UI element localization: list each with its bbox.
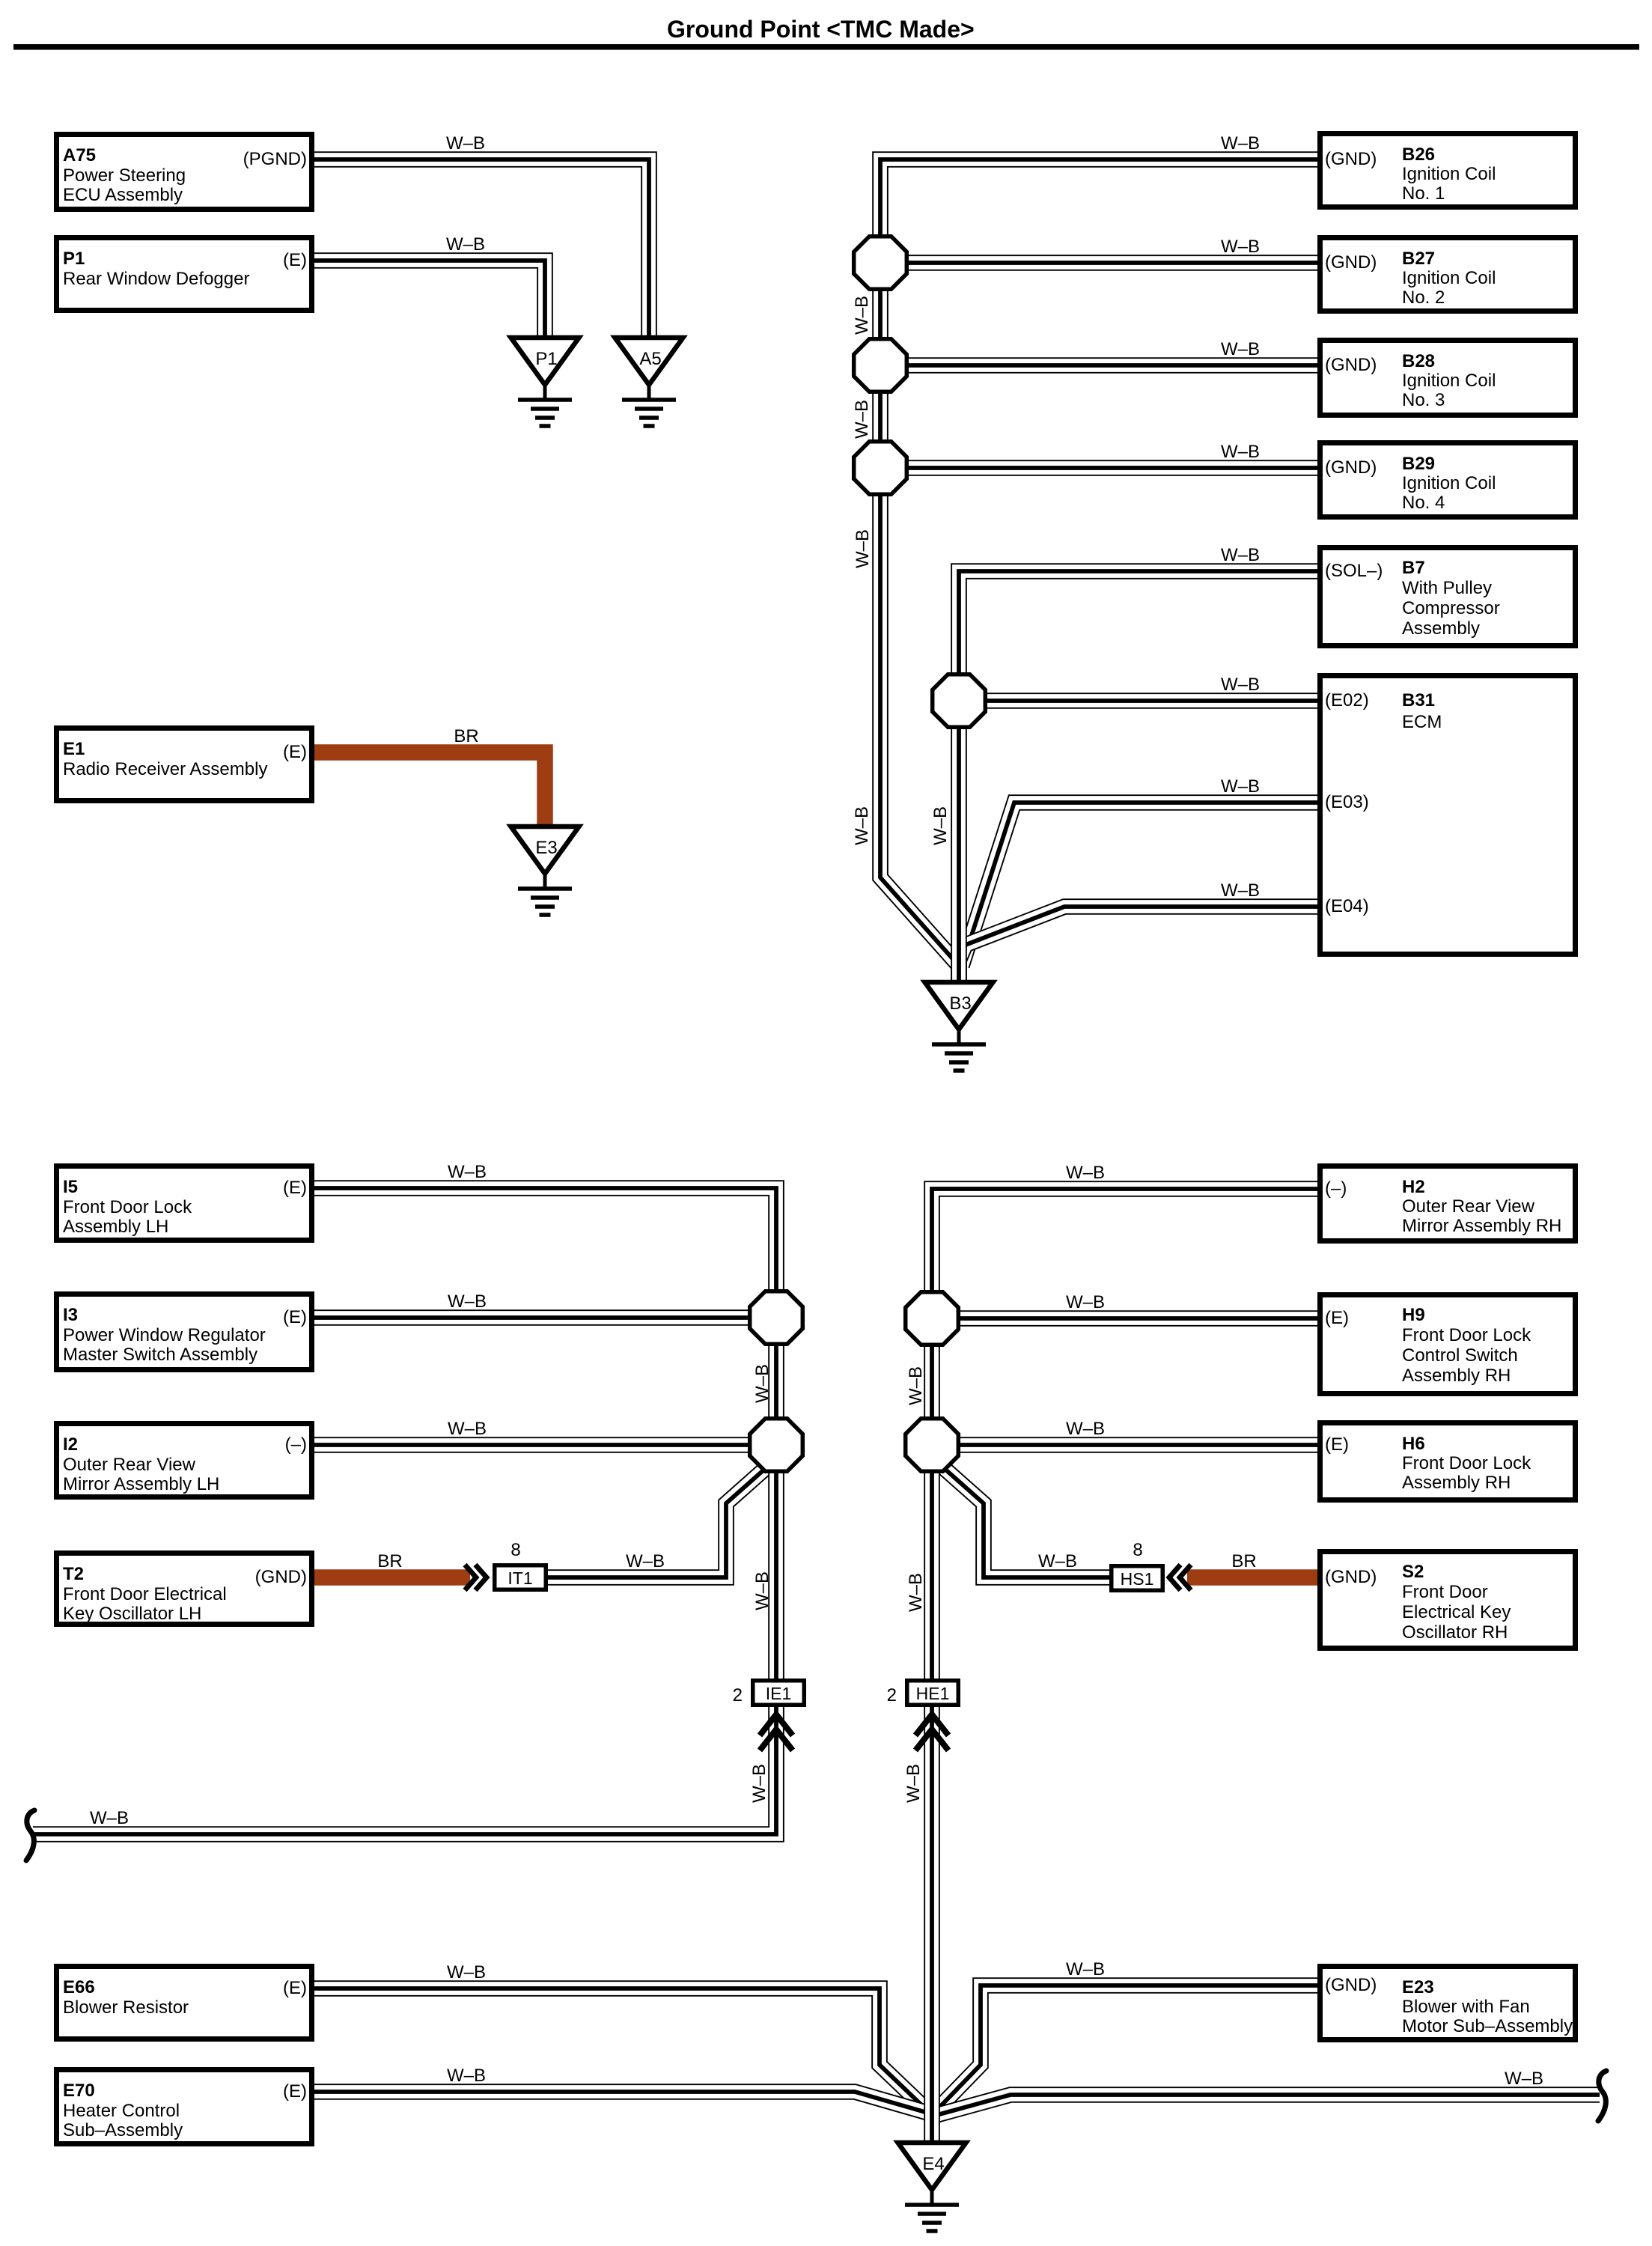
svg-text:W–B: W–B: [448, 1291, 487, 1312]
svg-text:BR: BR: [377, 1551, 402, 1571]
svg-text:HS1: HS1: [1121, 1569, 1154, 1589]
svg-text:Front Door Lock: Front Door Lock: [1402, 1453, 1531, 1473]
svg-text:Outer Rear View: Outer Rear View: [63, 1455, 196, 1475]
svg-text:W–B: W–B: [1221, 442, 1260, 462]
svg-text:W–B: W–B: [852, 296, 872, 335]
svg-text:B26: B26: [1402, 144, 1435, 165]
svg-text:W–B: W–B: [446, 234, 485, 255]
svg-text:B28: B28: [1402, 351, 1435, 371]
svg-text:A5: A5: [639, 349, 661, 369]
svg-text:Front Door Lock: Front Door Lock: [63, 1197, 192, 1217]
svg-text:S2: S2: [1402, 1562, 1424, 1582]
svg-text:Assembly RH: Assembly RH: [1402, 1473, 1511, 1493]
svg-text:(E): (E): [283, 1307, 307, 1327]
svg-text:(E): (E): [1325, 1308, 1349, 1328]
svg-text:W–B: W–B: [852, 806, 872, 845]
svg-text:(GND): (GND): [1325, 1567, 1377, 1587]
svg-text:B31: B31: [1402, 690, 1435, 710]
svg-text:(GND): (GND): [1325, 252, 1377, 273]
svg-text:8: 8: [510, 1540, 520, 1560]
svg-text:Front Door: Front Door: [1402, 1582, 1488, 1602]
svg-text:IE1: IE1: [766, 1684, 792, 1703]
svg-text:Ignition Coil: Ignition Coil: [1402, 164, 1496, 184]
svg-text:No. 4: No. 4: [1402, 493, 1445, 513]
svg-text:E1: E1: [63, 739, 85, 759]
svg-text:Ignition Coil: Ignition Coil: [1402, 268, 1496, 288]
svg-text:B7: B7: [1402, 558, 1425, 578]
svg-text:W–B: W–B: [1505, 2069, 1543, 2089]
svg-text:W–B: W–B: [1221, 776, 1260, 797]
svg-text:W–B: W–B: [1221, 675, 1260, 695]
svg-text:No. 1: No. 1: [1402, 183, 1445, 204]
svg-text:E3: E3: [535, 838, 557, 858]
svg-text:Compressor: Compressor: [1402, 598, 1500, 618]
svg-text:P1: P1: [63, 249, 85, 269]
svg-text:(GND): (GND): [1325, 457, 1377, 478]
svg-text:W–B: W–B: [1066, 1163, 1105, 1183]
svg-text:E23: E23: [1402, 1977, 1434, 1997]
svg-text:(PGND): (PGND): [243, 149, 307, 169]
svg-text:Radio Receiver Assembly: Radio Receiver Assembly: [63, 759, 267, 779]
svg-text:(GND): (GND): [1325, 149, 1377, 169]
svg-text:W–B: W–B: [448, 1162, 487, 1182]
svg-text:Assembly RH: Assembly RH: [1402, 1366, 1511, 1386]
svg-text:Mirror Assembly RH: Mirror Assembly RH: [1402, 1216, 1561, 1236]
svg-text:Power Steering: Power Steering: [63, 165, 186, 186]
svg-text:W–B: W–B: [448, 1419, 487, 1439]
svg-text:ECU Assembly: ECU Assembly: [63, 185, 183, 205]
svg-text:W–B: W–B: [853, 529, 873, 568]
svg-text:T2: T2: [63, 1564, 84, 1584]
svg-text:(E02): (E02): [1325, 690, 1369, 710]
svg-text:E70: E70: [63, 2081, 95, 2101]
svg-text:(GND): (GND): [1325, 1975, 1377, 1995]
svg-text:W–B: W–B: [906, 1573, 926, 1612]
svg-text:Assembly LH: Assembly LH: [63, 1217, 168, 1237]
svg-text:Motor Sub–Assembly: Motor Sub–Assembly: [1402, 2016, 1573, 2036]
svg-text:Key Oscillator LH: Key Oscillator LH: [63, 1604, 201, 1624]
svg-text:W–B: W–B: [1066, 1419, 1105, 1439]
svg-text:(E): (E): [283, 2081, 307, 2102]
svg-text:Control Switch: Control Switch: [1402, 1345, 1518, 1366]
svg-text:W–B: W–B: [447, 2066, 486, 2086]
svg-text:Rear Window Defogger: Rear Window Defogger: [63, 269, 249, 289]
svg-text:Blower Resistor: Blower Resistor: [63, 1997, 189, 2018]
svg-text:W–B: W–B: [752, 1571, 772, 1610]
svg-text:8: 8: [1133, 1540, 1142, 1560]
svg-text:IT1: IT1: [508, 1568, 532, 1588]
svg-text:BR: BR: [454, 726, 478, 746]
svg-text:W–B: W–B: [906, 1366, 926, 1405]
svg-text:Master Switch Assembly: Master Switch Assembly: [63, 1345, 257, 1365]
svg-text:P1: P1: [535, 349, 557, 369]
svg-text:(E): (E): [283, 742, 307, 762]
svg-text:W–B: W–B: [930, 806, 951, 845]
svg-text:(SOL–): (SOL–): [1325, 561, 1383, 581]
svg-text:B29: B29: [1402, 454, 1435, 474]
svg-text:W–B: W–B: [1221, 133, 1260, 153]
svg-text:Oscillator RH: Oscillator RH: [1402, 1622, 1508, 1643]
svg-text:W–B: W–B: [1221, 880, 1260, 901]
svg-text:B27: B27: [1402, 249, 1435, 269]
svg-text:No. 3: No. 3: [1402, 390, 1445, 410]
svg-text:W–B: W–B: [1066, 1959, 1105, 1979]
svg-text:(E): (E): [283, 250, 307, 270]
svg-text:W–B: W–B: [1221, 237, 1260, 257]
svg-text:(E): (E): [283, 1978, 307, 1998]
svg-text:Electrical Key: Electrical Key: [1402, 1602, 1511, 1622]
svg-text:With Pulley: With Pulley: [1402, 578, 1492, 598]
svg-text:(E04): (E04): [1325, 896, 1369, 916]
svg-text:Ground Point <TMC Made>: Ground Point <TMC Made>: [667, 16, 975, 43]
svg-text:Heater Control: Heater Control: [63, 2101, 180, 2121]
svg-text:H6: H6: [1402, 1434, 1425, 1454]
svg-text:W–B: W–B: [446, 133, 485, 153]
svg-text:W–B: W–B: [903, 1764, 924, 1803]
svg-text:(GND): (GND): [1325, 355, 1377, 375]
svg-text:Power Window Regulator: Power Window Regulator: [63, 1325, 266, 1345]
svg-text:Ignition Coil: Ignition Coil: [1402, 371, 1496, 391]
svg-text:Sub–Assembly: Sub–Assembly: [63, 2120, 183, 2140]
svg-text:W–B: W–B: [752, 1364, 772, 1403]
svg-text:HE1: HE1: [916, 1684, 950, 1703]
svg-text:W–B: W–B: [749, 1764, 769, 1803]
svg-text:Outer Rear View: Outer Rear View: [1402, 1196, 1535, 1217]
svg-text:(GND): (GND): [255, 1567, 307, 1587]
svg-text:Front Door Lock: Front Door Lock: [1402, 1325, 1531, 1345]
svg-text:E4: E4: [922, 2154, 944, 2174]
svg-text:H2: H2: [1402, 1177, 1425, 1197]
svg-text:W–B: W–B: [1221, 545, 1260, 565]
svg-text:W–B: W–B: [1066, 1292, 1105, 1312]
svg-text:(–): (–): [285, 1434, 307, 1455]
svg-text:BR: BR: [1231, 1551, 1256, 1571]
svg-text:I3: I3: [63, 1305, 78, 1325]
svg-text:2: 2: [733, 1685, 743, 1705]
svg-text:W–B: W–B: [447, 1962, 486, 1982]
svg-text:Mirror Assembly LH: Mirror Assembly LH: [63, 1474, 219, 1494]
svg-text:W–B: W–B: [1038, 1551, 1077, 1571]
svg-text:A75: A75: [63, 145, 96, 165]
svg-text:I5: I5: [63, 1177, 78, 1197]
svg-text:(E03): (E03): [1325, 792, 1369, 812]
svg-text:(E): (E): [1325, 1434, 1349, 1455]
svg-text:Assembly: Assembly: [1402, 618, 1480, 639]
svg-text:W–B: W–B: [90, 1808, 129, 1828]
svg-text:2: 2: [887, 1685, 897, 1705]
svg-text:Front Door Electrical: Front Door Electrical: [63, 1584, 227, 1604]
svg-text:ECM: ECM: [1402, 712, 1442, 732]
svg-text:W–B: W–B: [1221, 339, 1260, 359]
svg-text:W–B: W–B: [626, 1551, 665, 1571]
svg-text:B3: B3: [949, 993, 971, 1014]
svg-text:I2: I2: [63, 1434, 78, 1455]
svg-text:(–): (–): [1325, 1178, 1347, 1199]
svg-text:W–B: W–B: [852, 400, 872, 439]
svg-text:Blower with Fan: Blower with Fan: [1402, 1997, 1530, 2017]
svg-text:(E): (E): [283, 1178, 307, 1198]
svg-text:E66: E66: [63, 1977, 95, 1997]
svg-text:Ignition Coil: Ignition Coil: [1402, 473, 1496, 493]
svg-text:H9: H9: [1402, 1305, 1425, 1325]
svg-text:No. 2: No. 2: [1402, 287, 1445, 308]
